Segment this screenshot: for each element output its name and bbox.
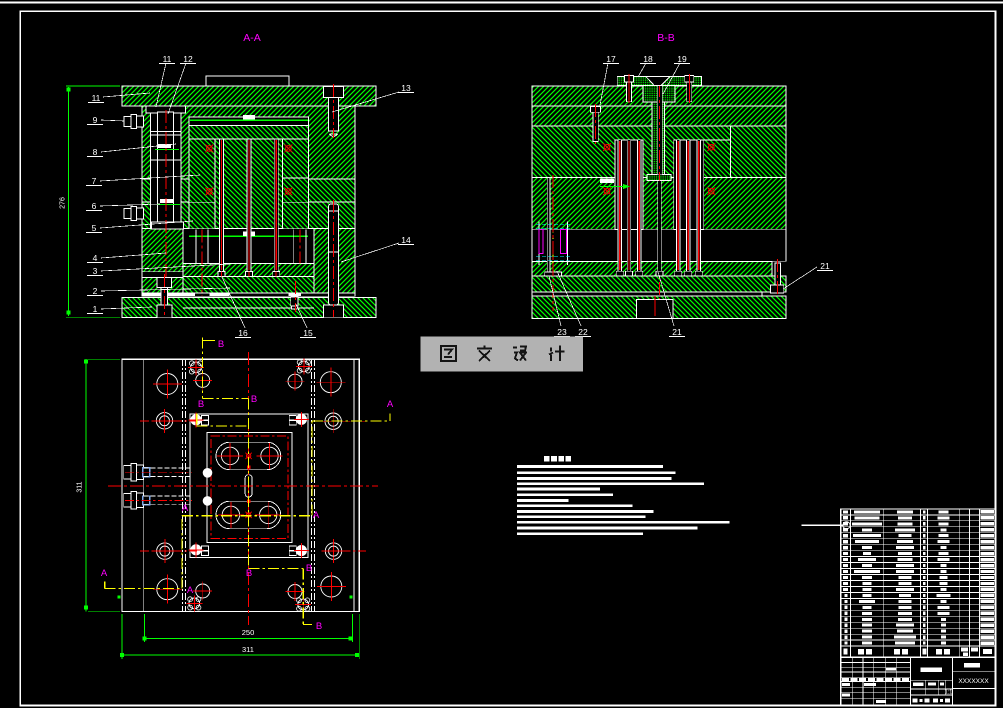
screw under left rail [157,274,172,318]
plan view: outer plate rectangle [122,359,359,611]
counterbore band in left rail [142,272,183,278]
cavity slot upper (stadium) [216,442,281,470]
guide pillar centerline [165,110,167,316]
callout label 22 (B-B) [557,271,591,337]
svg-text:7: 7 [92,176,97,186]
svg-text:3: 3 [93,266,98,276]
svg-text:9: 9 [93,115,98,125]
svg-text:22: 22 [578,327,588,337]
eye bolt item 6 (left lower) [124,207,144,221]
clamp slot lugs at pocket corner [289,546,296,555]
svg-text:12: 12 [183,54,193,64]
tech requirements heading [544,456,571,461]
tech note line 9 (redacted bar) [517,510,654,513]
ejector pin 2 (B-B) [626,140,633,276]
tech note line 3 (redacted bar) [517,477,672,480]
callout label 1 (A-A) [87,304,152,314]
parting line across support plate [142,201,355,203]
gap: A-A ejection space [183,229,314,264]
stop pin (item 21 right) [771,259,784,297]
guide pillar holes (big circles, 4 corners) [153,368,346,604]
guide pillar and bushing (items 11,12) [146,106,186,229]
plate 1 bottom clamp main [122,297,376,317]
insert: pocket right wall lower [282,178,308,229]
plate: A-A core plate (B plate) [142,179,355,202]
callout label 16 (A-A) [222,277,251,338]
tech note line 4 (redacted bar) [517,482,704,485]
sprue puller pin (center, item 21) [656,181,663,276]
svg-text:18: 18 [643,54,653,64]
ejector pin 5 (B-B) [685,140,692,276]
plate: B-B cavity plate lower row [532,126,786,178]
cross-slot screw head [296,358,312,374]
plate: B-B top clamp plate [532,86,786,106]
plan view: hidden edge left (dashed pair) [182,359,184,611]
plan view: cavity insert rectangle [207,432,292,542]
callout label 21 (B-B) [783,261,833,289]
cooling channel marks (A-A) [205,145,292,196]
callout label 14 (A-A) [341,235,414,262]
section line A-A (yellow) [105,414,390,589]
title block: left revision grid [841,657,953,705]
sprue access hole in bottom plate [637,296,674,319]
svg-text:A: A [182,503,189,514]
pocket: A-A mold insert pocket [189,117,309,229]
interface band between ejector base and bottom plate [142,293,355,296]
plate: B-B bottom clamp plate [532,296,786,319]
bushing row centerline stubs [140,421,366,551]
gap: B-B ejection space [532,229,786,261]
svg-text:17: 17 [606,54,616,64]
svg-text:2: 2 [93,286,98,296]
callout label 12 (A-A) [168,54,196,114]
title block: right company box redacted bar [952,663,995,689]
ejector pin 6 (B-B) [695,140,702,276]
thin plate band above bottom plate [532,292,762,296]
svg-text:23: 23 [557,327,567,337]
plate: A-A ejector base plate [183,276,314,294]
title block: signature text row [842,668,909,703]
ejector pin 1 (A-A) [218,139,225,276]
svg-text:16: 16 [238,328,248,338]
plate: B-B ejector retainer plate [532,261,772,276]
callout label 11 (A-A) [88,93,150,103]
return pin with spring (items 22,23) [536,175,570,311]
locating ring screw left [624,74,633,103]
tech note line 12 (redacted bar) [517,527,698,530]
cross-slot screw head [186,595,202,611]
callout label 9 (A-A) [87,115,124,125]
callout label 15 (A-A) [296,304,316,338]
insert: core insert [215,139,282,229]
svg-text:B: B [251,394,257,405]
plan view: vertical centerline [248,352,250,625]
callout label 2 (A-A) [87,286,230,296]
ejector rod recess line in bottom plate (A-A) [183,307,314,309]
screw holes (medium circles) [193,371,304,601]
svg-text:21: 21 [820,261,830,271]
cavity slot lower (stadium) [216,501,281,529]
ejector pin 1 (B-B) [616,140,623,276]
insert: pocket left wall [189,139,215,229]
callout label 4 (A-A) [87,253,166,263]
plan view: cavity red phantom rectangle [211,436,288,538]
screw 13 (top right) [324,84,344,138]
svg-text:276: 276 [60,197,67,209]
gate mark green arrow (B-B) [600,179,630,190]
callout label 17 (B-B) [600,54,619,105]
rail: A-A left spacer block [142,229,183,295]
white filled segments of interface band [142,293,301,296]
callout label 7 (A-A) [86,175,200,186]
plate: A-A ejector retainer plate [183,264,314,277]
svg-text:6: 6 [92,201,97,211]
locating ring (B-B, item 18) [617,76,701,85]
border: outer top edge line [0,2,1003,4]
svg-text:311: 311 [242,645,254,654]
svg-text:4: 4 [93,253,98,263]
tech note line 7 (redacted bar) [517,499,569,502]
callout label 18 (B-B) [638,54,656,77]
center gate slot (small stadium) [245,475,252,498]
dimension line in ejection gap [189,231,308,236]
svg-text:A: A [387,399,394,410]
cavity circles in lower slot [218,502,281,528]
svg-text:B: B [198,399,204,410]
pocket left (B-B ejector sleeve pocket) [615,140,643,230]
svg-text:250: 250 [242,628,255,637]
watermark glyphs (tu wen she ji) [441,346,565,362]
callout label 8 (A-A) [87,144,176,157]
svg-text:8: 8 [93,147,98,157]
pocket top edge line right of pocket (B-B) [704,139,731,141]
callout label 13 (A-A) [332,83,414,112]
title block outer frame [841,657,996,705]
svg-text:B: B [246,568,252,579]
locating ring screw right [685,74,694,103]
svg-text:5: 5 [92,223,97,233]
plate 11: A-A top clamp plate [122,86,376,106]
BOM header row texts [844,648,993,657]
ejector pin 3 (B-B) [636,140,643,276]
tech note line 10 (redacted bar) [517,515,646,518]
ejector pin 4 (B-B) [675,140,682,276]
svg-text:21: 21 [672,327,682,337]
svg-text:1:1: 1:1 [945,690,953,696]
svg-text:A: A [187,585,194,596]
screw 17 [591,104,601,144]
side lock screw (plan view left) [124,492,213,509]
plan view: hidden edge right (dashed pair) [311,359,313,611]
ejector pin 3 (A-A) [273,139,280,276]
callout label 11 (A-A) [156,54,175,107]
svg-text:A-A: A-A [243,32,261,44]
cross-slot screw head [295,597,311,613]
dimension 311 (plan bottom) [120,614,359,659]
svg-text:B: B [316,621,322,632]
svg-text:A: A [313,510,320,521]
title block: sheet count row [913,699,951,703]
svg-text:11: 11 [92,93,101,103]
step line right side (B-B) [730,126,732,178]
guide bushing holes (double ring circles) [153,409,177,433]
svg-text:15: 15 [303,328,313,338]
screw 14 (bottom right) [324,200,344,318]
BOM table frame [841,509,996,657]
tech note line 1 (redacted bar) [517,465,663,468]
side lock screw (plan view left) [124,464,213,481]
plate: B-B core/support row [532,178,786,230]
cooling channel marks (B-B) [603,143,715,195]
title block: scale/weight row [910,680,952,695]
clamp slot lugs at pocket corner [289,416,296,425]
return pins in ejection gap (A-A) [196,229,306,296]
tech note line 8 (redacted bar) [517,504,633,507]
clamp slot lugs at pocket corner [202,546,209,555]
tech note line 6 (redacted bar) [517,493,613,496]
eye bolt item 9 (left upper) [124,115,144,129]
sprue funnel cone [646,76,670,85]
plate: B-B cavity plate row [532,106,786,126]
plan view: horizontal centerline [108,485,378,487]
insert: pocket right wall upper [282,139,308,178]
svg-text:11: 11 [163,54,172,64]
svg-text:A: A [101,568,108,579]
svg-text:1: 1 [93,304,98,314]
ejector pin 2 (A-A) [246,139,253,276]
red marks along vertical centerline [245,453,251,518]
pocket right (B-B ejector sleeve pocket) [674,140,704,230]
svg-text:311: 311 [77,481,84,492]
sprue bushing (B-B, item 19) [643,84,675,299]
callout label 19 (B-B) [663,54,690,94]
plate: A-A support plate [142,202,355,229]
svg-text:13: 13 [401,83,411,93]
callout label 21 (B-B) [658,272,685,337]
insert: cavity insert band [189,126,309,140]
cross-slot screw head [188,359,204,375]
callout label 6 (A-A) [86,201,160,211]
dimension 276 (A-A overall height, left) [60,86,121,318]
plate: B-B ejector base plate [532,276,786,292]
dimension line in cavity (top) [190,115,308,121]
small screw holes near pocket corners [189,412,204,427]
watermark grey box [420,336,583,371]
tech note line 5 (redacted bar) [517,488,600,491]
balloon callout 20 into BOM [802,522,850,529]
callout label 5 (A-A) [86,221,193,233]
callout label 3 (A-A) [87,264,230,276]
tech note line 13 (redacted bar) [517,532,643,535]
cavity circles in upper slot [217,443,282,469]
screw 15 (bottom center) [291,281,298,312]
section line B-B (yellow) [202,338,312,625]
svg-text:B-B: B-B [657,32,675,44]
dimension 311 (plan left vertical) [77,359,121,611]
locating ring boss on top plate [206,76,289,86]
clamp slot lugs at pocket corner [202,416,209,425]
guide pillar dimension marks [155,144,180,205]
svg-text:19: 19 [677,54,687,64]
BOM table row contents [843,510,994,645]
plan view: inner plate right edge [353,359,355,611]
plan view: inner plate left edge [143,359,145,611]
plate: A-A fixed cavity plate (A plate) [142,106,355,179]
svg-text:B: B [306,563,312,574]
dimension 250 (plan) [143,614,353,642]
svg-text:B: B [218,339,224,350]
callout label 23 (B-B) [549,276,570,337]
svg-text:14: 14 [401,235,411,245]
svg-text:XXXXXXX: XXXXXXX [958,678,989,685]
plan view: insert pocket rectangle [190,414,308,557]
small green ticks at plan lower edge [118,595,121,598]
rail: A-A right spacer block [314,229,355,295]
tech note line 11 (redacted bar) [517,521,730,524]
section line B jog through corner screw [197,414,249,426]
title block: drawing name box with redacted bar [910,668,952,681]
tech note line 2 (redacted bar) [517,471,676,474]
